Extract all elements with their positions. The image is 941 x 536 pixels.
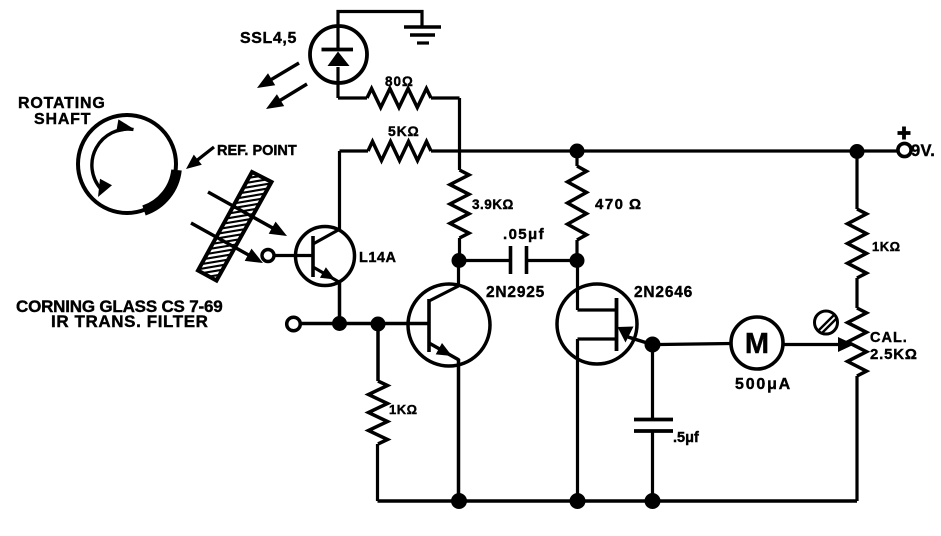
svg-text:1KΩ: 1KΩ: [872, 239, 901, 254]
svg-text:80Ω: 80Ω: [385, 74, 414, 89]
svg-text:2N2646: 2N2646: [634, 284, 693, 301]
svg-text:.05μf: .05μf: [503, 226, 545, 243]
svg-text:CAL.: CAL.: [870, 330, 908, 346]
svg-text:REF. POINT: REF. POINT: [217, 143, 297, 159]
svg-text:IR TRANS. FILTER: IR TRANS. FILTER: [51, 312, 209, 331]
svg-text:ROTATING: ROTATING: [18, 95, 106, 112]
svg-text:5KΩ: 5KΩ: [388, 123, 420, 139]
svg-text:L14A: L14A: [359, 250, 396, 266]
svg-text:2.5KΩ: 2.5KΩ: [870, 346, 918, 363]
svg-text:470 Ω: 470 Ω: [595, 196, 643, 213]
svg-text:2N2925: 2N2925: [486, 284, 545, 301]
svg-text:SSL4,5: SSL4,5: [240, 30, 297, 47]
svg-text:M: M: [745, 328, 769, 360]
svg-text:SHAFT: SHAFT: [34, 111, 91, 128]
svg-text:3.9KΩ: 3.9KΩ: [472, 197, 514, 212]
svg-text:1KΩ: 1KΩ: [389, 402, 418, 417]
svg-text:500μA: 500μA: [735, 376, 792, 393]
svg-text:9V.: 9V.: [911, 142, 935, 160]
svg-text:.5μf: .5μf: [673, 430, 699, 446]
